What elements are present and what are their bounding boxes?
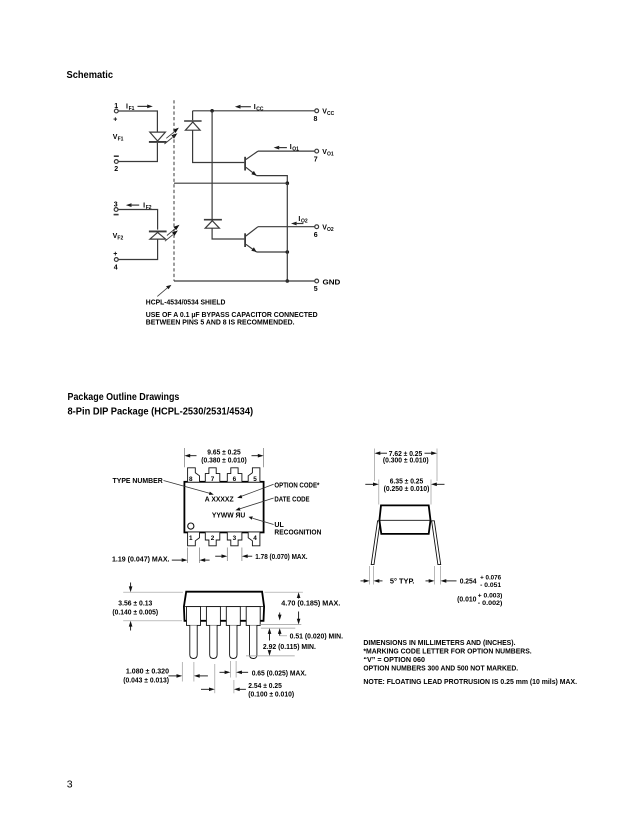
dim 1.78 arrows [215, 554, 252, 558]
svg-text:9.65 ± 0.25: 9.65 ± 0.25 [207, 450, 240, 457]
lead tip seating line [246, 655, 295, 657]
svg-text:DATE CODE: DATE CODE [274, 496, 309, 503]
svg-text:O1: O1 [327, 151, 334, 157]
note bypass capacitor line 2 [146, 319, 295, 326]
wire Q1 emitter to ground bus [257, 176, 288, 184]
label GND pin 5 [314, 279, 341, 293]
leader date code [235, 498, 273, 511]
node junction Q2 emitter on ground bus [286, 250, 290, 254]
svg-text:CC: CC [327, 111, 335, 117]
svg-text:- 0.002): - 0.002) [478, 601, 503, 607]
wire VCC rail [193, 110, 315, 112]
wire PD1 cathode to VCC rail [192, 111, 194, 120]
svg-text:OPTION NUMBERS 300 AND 500 NOT: OPTION NUMBERS 300 AND 500 NOT MARKED. [363, 665, 518, 672]
LED D2 [149, 231, 167, 239]
GND rail wire [174, 280, 315, 282]
pin 2 label [114, 166, 118, 173]
label VO1 pin 7 [314, 149, 334, 164]
svg-text:F1: F1 [118, 136, 124, 142]
label VF2 [113, 233, 124, 241]
dim label 2.92 [263, 644, 316, 651]
dim label 7.62 [383, 451, 429, 465]
svg-text:OPTION CODE*: OPTION CODE* [274, 483, 319, 490]
dim label 0.51 [290, 634, 343, 641]
wire Q2 collector to VO2 [258, 226, 315, 228]
dim 6.35 extension lines [379, 480, 431, 505]
svg-text:+: + [113, 116, 117, 123]
dim label 9.65 [201, 450, 246, 465]
pin 4 label [114, 265, 118, 272]
leader ul recognition [249, 516, 274, 524]
label IO1 with arrow [274, 146, 287, 150]
pin 5 outline [248, 468, 260, 482]
light arrows channel 2 [165, 225, 180, 241]
note bypass capacitor line 1 [146, 312, 318, 319]
lead 2 pin front view [210, 625, 217, 658]
svg-text:O1: O1 [292, 146, 299, 152]
svg-text:Schematic: Schematic [67, 70, 114, 81]
extension line B [261, 627, 296, 629]
pin 3 minus label [114, 214, 119, 216]
dim 9.65 extension lines [184, 448, 263, 467]
dim 2.54 arrows [201, 688, 246, 692]
svg-text:0.51 (0.020) MIN.: 0.51 (0.020) MIN. [290, 634, 343, 641]
svg-text:3: 3 [114, 202, 118, 209]
svg-text:6: 6 [314, 232, 318, 239]
svg-text:Package Outline Drawings: Package Outline Drawings [68, 392, 180, 403]
pin 7 VO1 terminal [315, 149, 319, 153]
dim label 1.19 [112, 557, 170, 564]
heading 8-Pin DIP Package [68, 406, 254, 417]
package body top view [184, 482, 263, 533]
svg-text:A XXXXZ: A XXXXZ [205, 497, 234, 504]
dim 0.65 extension lines [230, 661, 236, 678]
wire VCC rail to PD2 cathode [211, 111, 213, 220]
transistor Q1 [245, 151, 258, 176]
svg-text:8: 8 [314, 116, 318, 123]
dim label 5deg [390, 578, 415, 586]
page number 3 [67, 779, 73, 791]
svg-text:(0.010: (0.010 [457, 597, 476, 604]
lead 3 pin front view [230, 625, 237, 658]
dim 7.62 extension lines [375, 449, 438, 482]
svg-text:6: 6 [233, 476, 237, 483]
dim 1.78 extension lines [227, 548, 242, 562]
svg-text:DIMENSIONS IN MILLIMETERS AND: DIMENSIONS IN MILLIMETERS AND (INCHES). [363, 640, 515, 647]
heading Schematic [67, 70, 114, 81]
svg-text:1: 1 [114, 103, 118, 110]
dim 5deg extension lines [370, 566, 374, 585]
note floating lead protrusion [363, 679, 577, 686]
dim label 1.080 [123, 668, 169, 684]
pin number 6 [233, 476, 237, 483]
pin 8 outline [188, 468, 200, 482]
pin number 7 [211, 476, 215, 483]
pin 8 VCC terminal [315, 109, 319, 113]
wire PD1 anode to Q1 base [193, 130, 245, 162]
dim 0.254 extension lines [435, 566, 441, 585]
svg-text:(0.300 ± 0.010): (0.300 ± 0.010) [383, 458, 429, 465]
dim 0.254 arrows [426, 579, 457, 583]
dim 7.62 arrows [375, 451, 438, 455]
dim label 0.65 [252, 671, 307, 678]
svg-text:0.65 (0.025) MAX.: 0.65 (0.025) MAX. [252, 671, 307, 678]
dim 1.080 extension lines [182, 662, 194, 682]
svg-text:1.19 (0.047) MAX.: 1.19 (0.047) MAX. [112, 557, 170, 564]
svg-text:NOTE: FLOATING LEAD PROTRUSION: NOTE: FLOATING LEAD PROTRUSION IS 0.25 m… [363, 679, 577, 686]
dim label 3.56 [112, 601, 158, 617]
pin 4 plus label [113, 251, 117, 258]
lead 4 pin front view [250, 625, 257, 658]
svg-text:+ 0.003): + 0.003) [478, 594, 503, 600]
svg-text:8: 8 [189, 476, 193, 483]
pin 6 outline [227, 468, 242, 482]
ground bus vertical wire [286, 183, 288, 281]
dim label 2.54 [248, 683, 294, 698]
pin 1 outline [188, 532, 200, 545]
wire LED D1 cathode to pin 2 [118, 143, 157, 162]
dim 1.19 extension lines [188, 548, 200, 564]
package lead left side view [371, 521, 380, 565]
photodiode PD2 [204, 220, 222, 229]
dim label 0.010 with tolerances [457, 594, 502, 608]
pin number 4 [253, 535, 257, 542]
dim 9.65 arrows [184, 454, 263, 458]
svg-text:BETWEEN PINS 5 AND 8 IS RECOMM: BETWEEN PINS 5 AND 8 IS RECOMMENDED. [146, 319, 295, 326]
dim 6.35 arrows [365, 483, 444, 487]
pin 1 terminal [114, 109, 118, 113]
pin 5 GND terminal [315, 279, 319, 283]
pin 3 label [114, 202, 118, 209]
pin 2 minus label [114, 155, 119, 157]
label HCPL-4534/0534 SHIELD [146, 300, 226, 307]
lead 4 shoulder front view [246, 607, 260, 626]
svg-text:8-Pin DIP Package (HCPL-2530/2: 8-Pin DIP Package (HCPL-2530/2531/4534) [68, 406, 254, 417]
label UL RECOGNITION [274, 522, 321, 537]
package body side view [379, 505, 430, 534]
leader type number [164, 481, 214, 495]
pin 4 outline [248, 532, 260, 545]
svg-text:HCPL-4534/0534 SHIELD: HCPL-4534/0534 SHIELD [146, 300, 226, 307]
package lead right side view [432, 521, 441, 565]
isolation shield dashed line [173, 100, 175, 281]
dim label 0.254 with tolerances [460, 575, 502, 589]
marking line A XXXXZ [205, 497, 234, 504]
note marking code letter [363, 649, 531, 656]
photodiode PD1 [184, 121, 202, 130]
svg-text:RECOGNITION: RECOGNITION [274, 529, 321, 536]
lead 1 pin front view [190, 625, 197, 658]
dim 2.92 arrows [268, 628, 272, 656]
note V option 060 [363, 657, 425, 664]
node junction VCC rail to PD2 branch [210, 109, 214, 113]
lead 3 shoulder front view [226, 607, 240, 626]
svg-text:2.92 (0.115) MIN.: 2.92 (0.115) MIN. [263, 644, 316, 651]
svg-text:6.35 ± 0.25: 6.35 ± 0.25 [390, 479, 424, 486]
note option numbers not marked [363, 665, 518, 672]
svg-text:7: 7 [211, 476, 215, 483]
svg-text:4: 4 [253, 535, 257, 542]
svg-text:UL: UL [274, 522, 284, 529]
pin number 5 [253, 476, 257, 483]
leader option code [237, 484, 273, 498]
pin number 2 [211, 535, 215, 542]
pin 2 terminal [114, 160, 118, 164]
label VO2 pin 6 [314, 225, 334, 240]
dim 4.70 arrows [297, 592, 301, 624]
dim 1.19 arrows [172, 558, 210, 562]
svg-text:USE OF A 0.1 µF BYPASS CAPACIT: USE OF A 0.1 µF BYPASS CAPACITOR CONNECT… [146, 312, 318, 319]
svg-text:2: 2 [114, 166, 118, 173]
wire PD2 anode to Q2 base [212, 228, 244, 239]
dim 4.70 extension lines [260, 592, 303, 624]
label VCC pin 8 [314, 109, 335, 123]
wire shield rail to ground bus [174, 182, 287, 184]
svg-text:2.54 ± 0.25: 2.54 ± 0.25 [248, 683, 282, 690]
pin 4 terminal [114, 258, 118, 262]
label IF2 with arrow [126, 203, 139, 207]
dim 5deg arrows [361, 579, 383, 583]
light arrows channel 1 [164, 128, 179, 144]
wire LED D2 anode to pin 4 [118, 239, 157, 259]
svg-text:GND: GND [323, 279, 341, 286]
svg-text:+ 0.076: + 0.076 [480, 575, 502, 581]
label IF1 with arrow [126, 104, 135, 112]
dim 0.51 arrows [278, 613, 287, 636]
pin 3 outline [227, 532, 242, 545]
package body front view [184, 592, 264, 621]
svg-text:4.70 (0.185) MAX.: 4.70 (0.185) MAX. [281, 601, 340, 608]
dim 2.54 extension lines [215, 664, 234, 693]
pin 7 outline [205, 468, 220, 482]
LED D1 [149, 132, 167, 142]
svg-text:5: 5 [314, 286, 318, 293]
node junction Q1 emitter rail [286, 181, 290, 185]
body parting line [379, 519, 430, 521]
label TYPE NUMBER [113, 478, 163, 485]
svg-text:TYPE NUMBER: TYPE NUMBER [113, 478, 163, 485]
body parting line front view [184, 606, 264, 608]
lead 1 shoulder front view [187, 607, 201, 626]
svg-text:3: 3 [67, 779, 73, 791]
dim 1.080 arrows [169, 674, 208, 678]
svg-text:3: 3 [233, 535, 237, 542]
svg-text:1: 1 [189, 535, 193, 542]
pin 1 label [113, 103, 118, 123]
heading Package Outline Drawings [68, 392, 180, 403]
dim 3.56 arrows [129, 583, 133, 631]
svg-text:1.080 ± 0.320: 1.080 ± 0.320 [126, 668, 169, 675]
svg-text:1.78 (0.070) MAX.: 1.78 (0.070) MAX. [255, 554, 307, 561]
svg-text:- 0.051: - 0.051 [480, 583, 502, 589]
svg-text:YYWW ЯU: YYWW ЯU [212, 513, 245, 520]
pin 1 indicator dot [188, 523, 194, 529]
svg-text:(0.100 ± 0.010): (0.100 ± 0.010) [248, 691, 294, 698]
label DATE CODE [274, 496, 309, 503]
label VF1 [113, 134, 124, 142]
pin number 8 [189, 476, 193, 483]
dim label 4.70 [281, 601, 340, 608]
svg-text:4: 4 [114, 265, 118, 272]
shield leader arrow [157, 285, 171, 297]
wire Q2 emitter to ground bus [257, 251, 288, 253]
svg-text:CC: CC [256, 107, 264, 113]
svg-text:5° TYP.: 5° TYP. [390, 578, 415, 586]
svg-text:3.56 ± 0.13: 3.56 ± 0.13 [118, 601, 152, 608]
svg-text:O2: O2 [301, 219, 308, 225]
transistor Q2 [245, 227, 258, 252]
wire pin3 to LED D2 cathode [118, 210, 158, 230]
dim 3.56 extension lines [123, 592, 183, 621]
svg-text:O2: O2 [327, 227, 334, 233]
lead 2 shoulder front view [206, 607, 220, 626]
svg-text:(0.250 ± 0.010): (0.250 ± 0.010) [384, 486, 430, 493]
pin number 1 [189, 535, 193, 542]
dim label 6.35 [384, 479, 430, 493]
wire pin1 to LED D1 anode [118, 111, 157, 132]
svg-text:(0.140 ± 0.005): (0.140 ± 0.005) [112, 610, 158, 617]
marking line YYWW RU [212, 513, 245, 520]
wire Q1 collector to VO1 [258, 150, 315, 152]
svg-text:*MARKING CODE LETTER FOR OPTIO: *MARKING CODE LETTER FOR OPTION NUMBERS. [363, 649, 531, 656]
dim label 1.78 [255, 554, 307, 561]
svg-text:“V” = OPTION 060: “V” = OPTION 060 [363, 657, 425, 664]
node junction ground bus to GND rail [286, 279, 290, 283]
svg-text:7: 7 [314, 156, 318, 163]
svg-text:(0.043 ± 0.013): (0.043 ± 0.013) [123, 677, 169, 684]
label IO2 with arrow [291, 222, 303, 226]
svg-text:(0.380 ± 0.010): (0.380 ± 0.010) [201, 458, 246, 465]
pin 2 outline [205, 532, 220, 545]
pin number 3 [233, 535, 237, 542]
pin 6 VO2 terminal [315, 225, 319, 229]
dim 0.65 arrows [220, 671, 249, 675]
svg-text:F1: F1 [129, 106, 135, 112]
svg-text:0.254: 0.254 [460, 579, 477, 586]
svg-text:F2: F2 [117, 236, 123, 242]
svg-text:5: 5 [253, 476, 257, 483]
label OPTION CODE* [274, 483, 319, 490]
pin 3 terminal [114, 208, 118, 212]
svg-text:2: 2 [211, 535, 215, 542]
note dimensions in millimeters [363, 640, 515, 647]
label ICC with arrow [235, 105, 251, 109]
